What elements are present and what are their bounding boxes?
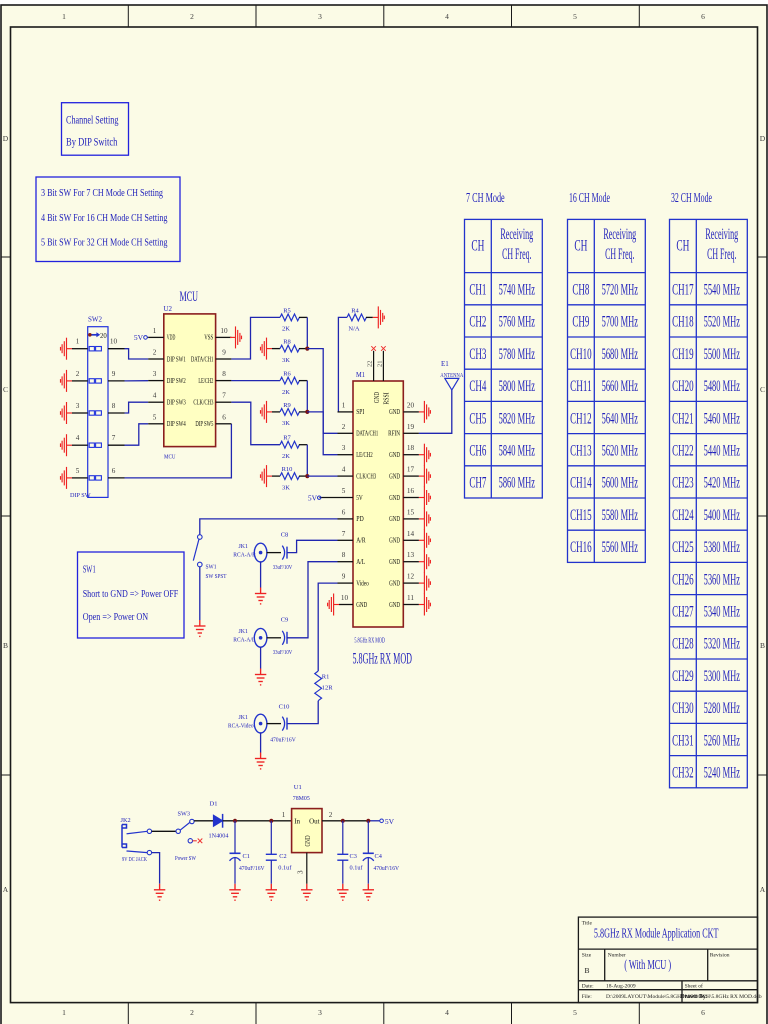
svg-text:6: 6 [222,413,226,421]
svg-text:5660 MHz: 5660 MHz [602,378,638,395]
svg-text:CH30: CH30 [672,700,694,717]
M1 left pin lines [320,412,354,605]
svg-text:1: 1 [76,338,80,346]
svg-text:17: 17 [407,466,415,474]
svg-text:5580 MHz: 5580 MHz [602,507,638,524]
RX module M1 [353,371,413,668]
svg-text:R4: R4 [351,307,359,314]
svg-text:13: 13 [407,551,415,559]
wire junction to M1.4 [307,475,337,477]
svg-text:Receiving: Receiving [500,226,533,243]
wire M1.19 to antenna [419,390,452,433]
svg-text:LE/CH2: LE/CH2 [356,451,373,459]
svg-text:CH27: CH27 [672,604,694,621]
svg-text:GND: GND [389,558,400,566]
svg-text:R6: R6 [283,371,291,378]
svg-text:C2: C2 [279,853,286,860]
svg-text:MCU: MCU [180,289,199,305]
svg-text:9: 9 [222,349,226,357]
U2 pin names [167,334,214,428]
gnd flag at R9 [261,401,273,423]
svg-text:5620 MHz: 5620 MHz [602,443,638,460]
svg-text:C9: C9 [281,617,289,624]
junction at C3 [341,819,345,823]
gnd flag M1.11 [419,594,431,616]
svg-text:Date:: Date: [582,984,594,990]
svg-text:SPI: SPI [356,408,365,416]
ground at C1 [229,884,240,900]
gnd flag M1.17 [419,465,431,487]
svg-text:9: 9 [342,573,346,581]
svg-text:5820 MHz: 5820 MHz [499,410,535,427]
svg-text:CH17: CH17 [672,282,694,299]
table: 16 CH Mode [568,191,646,562]
svg-text:CH2: CH2 [469,314,486,331]
svg-text:5: 5 [342,487,346,495]
no-connect X on pin 21 [381,346,386,351]
svg-text:CH28: CH28 [672,636,694,653]
svg-text:5860 MHz: 5860 MHz [499,475,535,492]
ground at JK2 [154,884,165,900]
svg-text:R5: R5 [283,307,291,314]
svg-text:SW3: SW3 [178,811,191,818]
svg-text:5440 MHz: 5440 MHz [704,443,740,460]
gnd flag SW2 pin5 [61,467,73,489]
svg-text:R9: R9 [283,402,291,409]
gnd flag M1.14 [419,529,431,551]
wire M1.Video to R1 [318,583,337,671]
svg-text:33uF/10V: 33uF/10V [273,564,293,571]
svg-text:5760 MHz: 5760 MHz [499,314,535,331]
gnd flag M1.16 [419,487,431,509]
SW2 right pins 10-6 [108,349,125,478]
svg-text:RCA-A/L: RCA-A/L [233,637,255,644]
svg-text:4: 4 [153,392,157,400]
svg-text:D: D [3,134,9,143]
junction R8/R5 [305,347,309,351]
svg-text:DIP SW: DIP SW [70,492,91,499]
svg-text:5V: 5V [308,493,318,502]
svg-text:CH Freq.: CH Freq. [605,246,634,263]
svg-text:CH21: CH21 [672,410,694,427]
wire SW2.10 to U2.2 [125,349,149,359]
svg-text:3: 3 [318,1008,322,1017]
svg-text:2K: 2K [282,389,290,396]
wire R5 to R8 junction [306,317,308,348]
svg-text:2: 2 [190,1008,194,1017]
svg-text:20: 20 [407,401,415,409]
svg-text:3: 3 [342,444,346,452]
no-connect X at SW3 unused throw [198,839,203,844]
svg-text:5640 MHz: 5640 MHz [602,410,638,427]
svg-text:Out: Out [309,817,320,825]
svg-text:C8: C8 [281,532,289,539]
wire M1.PD to SW1 [200,519,338,535]
switch SW3 [175,811,197,863]
gnd flag at U2.VSS [230,326,242,348]
svg-text:GND: GND [373,392,381,403]
svg-text:5 Bit SW For 32 CH Mode CH Set: 5 Bit SW For 32 CH Mode CH Setting [41,236,168,248]
junction R9/R6 [305,410,309,414]
svg-text:3K: 3K [282,420,290,427]
svg-text:CH4: CH4 [469,378,486,395]
junction at C1 [233,819,237,823]
gnd flag SW2 pin2 [61,370,73,392]
svg-text:RCA-Video: RCA-Video [228,723,254,730]
diode D1 1N4004 [209,801,230,840]
svg-text:5V: 5V [385,817,395,826]
svg-text:3K: 3K [282,357,290,364]
svg-text:12: 12 [407,573,415,581]
svg-text:16: 16 [407,487,415,495]
svg-text:1: 1 [282,811,286,819]
capacitor C2 [266,821,293,884]
svg-text:DIP SW5: DIP SW5 [195,420,213,428]
M1 pin names [356,408,400,609]
svg-text:21: 21 [376,361,383,368]
svg-text:GND: GND [389,601,400,609]
svg-text:14: 14 [407,530,415,538]
wire U2.7 to R7 [231,402,280,445]
gnd flag SW2 pin3 [61,402,73,424]
svg-text:3: 3 [297,870,305,874]
wire SW2.6 to U2.6 [125,424,232,478]
svg-text:6: 6 [701,12,705,21]
svg-text:In: In [294,817,300,825]
svg-text:5560 MHz: 5560 MHz [602,539,638,556]
svg-text:5460 MHz: 5460 MHz [704,410,740,427]
SW2 switch element 5 [89,476,101,480]
svg-text:CH23: CH23 [672,475,694,492]
wire R6 to R9 junction [306,381,308,412]
svg-text:7: 7 [342,530,346,538]
svg-text:5300 MHz: 5300 MHz [704,668,740,685]
wire D1 to U1.In [223,820,292,822]
capacitor C10 [270,704,296,744]
svg-text:1N4004: 1N4004 [209,833,230,840]
svg-text:RFIN: RFIN [388,430,400,438]
resistor R1 [315,671,333,701]
svg-text:5600 MHz: 5600 MHz [602,475,638,492]
gnd flag M1.13 [419,551,431,573]
svg-text:10: 10 [220,327,228,335]
svg-text:15: 15 [407,508,415,516]
svg-text:D: D [760,134,766,143]
capacitor C9 [273,617,293,657]
svg-text:R8: R8 [283,339,291,346]
svg-text:CH3: CH3 [469,346,486,363]
svg-text:A/R: A/R [356,537,366,545]
svg-text:6: 6 [342,508,346,516]
svg-text:SW1: SW1 [83,564,96,576]
connector JK1 RCA-A/L [233,628,281,668]
svg-text:5800 MHz: 5800 MHz [499,378,535,395]
capacitor C3 [337,821,363,884]
svg-text:CH22: CH22 [672,443,694,460]
svg-text:Receiving: Receiving [603,226,636,243]
table: 32 CH Mode [670,191,748,788]
no-connect X on pin 22 [371,346,376,351]
svg-text:A/L: A/L [356,558,365,566]
svg-text:470uF/16V: 470uF/16V [239,865,265,872]
svg-text:5680 MHz: 5680 MHz [602,346,638,363]
svg-text:7: 7 [112,434,116,442]
ground at JK1 A/R [255,588,266,604]
svg-text:33uF/10V: 33uF/10V [273,649,293,656]
wire R1 to C10 [287,701,318,724]
svg-text:8: 8 [222,370,226,378]
svg-text:CH31: CH31 [672,732,694,749]
svg-text:CLK/CH3: CLK/CH3 [193,399,213,407]
svg-text:5260 MHz: 5260 MHz [704,732,740,749]
switch SW1 SPST [193,535,226,580]
svg-text:5420 MHz: 5420 MHz [704,475,740,492]
svg-text:CH Freq.: CH Freq. [502,246,531,263]
svg-text:Power SW: Power SW [175,855,196,862]
svg-text:1: 1 [62,1008,66,1017]
wire SW3 to D1 [194,820,213,822]
svg-text:N/A: N/A [348,326,360,333]
junction at C4 [366,819,370,823]
svg-text:5: 5 [153,413,157,421]
svg-text:C: C [3,385,8,394]
gnd flag M1.10 [328,594,340,616]
power port 5V at M1.5 [308,493,321,502]
svg-text:5780 MHz: 5780 MHz [499,346,535,363]
svg-text:CH15: CH15 [570,507,592,524]
svg-text:5720 MHz: 5720 MHz [602,282,638,299]
svg-text:CH9: CH9 [572,314,589,331]
wire junction to M1.2 [307,349,337,434]
gnd flag at R4 [373,306,385,328]
top margin column dividers [128,5,639,27]
svg-text:M1: M1 [356,371,365,379]
svg-text:C3: C3 [350,853,357,860]
svg-text:5: 5 [573,1008,577,1017]
svg-text:SW SPST: SW SPST [206,573,227,580]
svg-text:18: 18 [407,444,415,452]
svg-text:12R: 12R [322,685,334,692]
svg-text:5V: 5V [134,333,144,342]
ground at JK1 A/L [255,669,266,685]
svg-text:5.8GHz RX Module Application C: 5.8GHz RX Module Application CKT [594,927,719,942]
svg-text:4: 4 [76,434,80,442]
svg-text:MCU: MCU [164,454,176,461]
svg-text:5400 MHz: 5400 MHz [704,507,740,524]
svg-text:RSSI: RSSI [383,392,391,405]
svg-text:5500 MHz: 5500 MHz [704,346,740,363]
svg-text:7 CH Mode: 7 CH Mode [466,191,505,206]
svg-text:DIP SW3: DIP SW3 [167,399,186,407]
side margin row dividers [1,257,767,775]
svg-text:5: 5 [573,12,577,21]
svg-text:Video: Video [356,579,369,587]
capacitor C1 [230,821,265,884]
svg-text:GND: GND [389,537,400,545]
wire JK2 tip to SW3 [152,830,176,832]
svg-text:18-Aug-2009: 18-Aug-2009 [606,984,636,990]
svg-text:Size: Size [582,953,592,959]
svg-text:5280 MHz: 5280 MHz [704,700,740,717]
svg-text:16 CH Mode: 16 CH Mode [569,191,610,206]
resistor R4 [338,307,372,412]
svg-text:CLK/CH3: CLK/CH3 [356,472,376,480]
svg-text:U2: U2 [164,305,173,313]
svg-text:CH: CH [574,238,587,255]
svg-text:GND: GND [389,451,400,459]
svg-text:RCA-A/R: RCA-A/R [233,552,256,559]
resistor R10 [272,466,307,491]
svg-text:5360 MHz: 5360 MHz [704,571,740,588]
svg-text:CH24: CH24 [672,507,694,524]
bottom margin column dividers [128,1003,639,1024]
svg-text:3K: 3K [282,484,290,491]
svg-text:LE/CH2: LE/CH2 [198,377,213,385]
wire SW2.8 to U2.4 [125,402,149,413]
svg-text:GND: GND [389,579,400,587]
U1 gnd pin wire [306,853,308,884]
svg-text:CH29: CH29 [672,668,694,685]
svg-text:VDD: VDD [167,334,176,342]
svg-text:9V DC JACK: 9V DC JACK [122,856,147,863]
svg-text:Open => Power ON: Open => Power ON [83,611,149,623]
svg-text:CH19: CH19 [672,346,694,363]
svg-text:DATA/CH1: DATA/CH1 [356,430,378,438]
svg-text:3: 3 [76,402,80,410]
connector JK1 RCA-Video [228,714,281,753]
capacitor C8 [273,532,293,572]
svg-text:78M05: 78M05 [293,795,310,802]
ground at U1 [301,884,312,900]
svg-text:2: 2 [76,370,80,378]
svg-text:CH18: CH18 [672,314,694,331]
wire U2.9 to R5 [231,317,280,359]
wire C8 to M1.A/R [287,540,338,552]
svg-text:3: 3 [153,370,157,378]
svg-text:A: A [760,885,766,894]
svg-text:GND: GND [356,601,367,609]
wire SW2.7 to U2.5 [125,424,149,445]
svg-text:4: 4 [445,12,449,21]
M1 top pin 22 GND [367,351,381,403]
wire R7 to R10 junction [306,445,308,476]
svg-text:0.1uf: 0.1uf [278,865,292,872]
DIP switch SW2 [70,316,108,499]
note: Channel Setting By DIP Switch [62,103,129,156]
svg-text:5540 MHz: 5540 MHz [704,282,740,299]
svg-text:8: 8 [342,551,346,559]
gnd flag SW2 pin1 [61,338,73,360]
wire SW1 to gnd [199,567,201,620]
svg-text:GND: GND [389,515,400,523]
table: 7 CH Mode [465,191,543,498]
svg-text:CH5: CH5 [469,410,486,427]
svg-text:2K: 2K [282,326,290,333]
svg-text:JK1: JK1 [239,714,249,721]
svg-text:5240 MHz: 5240 MHz [704,765,740,782]
svg-text:6: 6 [701,1008,705,1017]
svg-text:CH25: CH25 [672,539,694,556]
svg-text:5: 5 [76,467,80,475]
svg-text:C10: C10 [279,704,290,711]
svg-text:Short to GND => Power OFF: Short to GND => Power OFF [83,588,179,600]
svg-text:File:: File: [582,994,593,1000]
resistor R9 [272,402,307,427]
svg-text:5V: 5V [356,494,363,502]
svg-text:470uF/16V: 470uF/16V [270,737,296,744]
svg-text:JK1: JK1 [239,628,249,635]
svg-text:CH10: CH10 [570,346,592,363]
resistor R5 [280,307,307,332]
svg-text:5320 MHz: 5320 MHz [704,636,740,653]
svg-text:CH20: CH20 [672,378,694,395]
svg-text:5.8GHz RX MOD: 5.8GHz RX MOD [353,651,413,668]
svg-text:CH32: CH32 [672,765,694,782]
svg-text:SW2: SW2 [88,316,103,324]
svg-text:C1: C1 [243,853,250,860]
svg-text:Number: Number [608,953,626,959]
wire U1.Out to 5V port [322,820,368,822]
svg-text:DIP SW2: DIP SW2 [167,377,186,385]
svg-text:GND: GND [389,494,400,502]
svg-text:3 Bit SW For 7 CH Mode CH Sett: 3 Bit SW For 7 CH Mode CH Setting [41,187,163,199]
svg-text:CH: CH [471,238,484,255]
gnd flag M1.20 [419,401,431,423]
svg-text:2K: 2K [282,453,290,460]
regulator U1 78M05 [282,784,333,874]
M1 right pin lines [403,412,419,605]
wire C9 to M1.A/L [287,562,338,638]
svg-text:CH13: CH13 [570,443,592,460]
svg-text:CH6: CH6 [469,443,486,460]
svg-text:8: 8 [112,402,116,410]
svg-text:A: A [3,885,9,894]
svg-text:B: B [760,641,765,650]
svg-text:11: 11 [407,594,414,602]
svg-text:C4: C4 [375,853,383,860]
gnd flag M1.18 [419,444,431,466]
svg-text:5.8GHz RX MOD: 5.8GHz RX MOD [354,637,385,645]
svg-text:Sheet of: Sheet of [685,983,703,990]
svg-text:CH7: CH7 [469,475,486,492]
svg-text:5740 MHz: 5740 MHz [499,282,535,299]
wire U2.8 to R6 [231,380,280,382]
power port 5V output [380,817,395,826]
svg-text:CH14: CH14 [570,475,592,492]
svg-text:19: 19 [407,423,415,431]
svg-text:CH16: CH16 [570,539,592,556]
svg-text:Receiving: Receiving [705,226,738,243]
svg-text:2: 2 [329,811,333,819]
SW2 switch element 1 [89,347,101,351]
wire junction to M1.3 [307,412,337,455]
U2 left pin lines [148,337,164,423]
svg-text:GND: GND [389,472,400,480]
svg-text:4: 4 [342,466,346,474]
resistor R7 [280,435,307,460]
svg-text:U1: U1 [294,784,302,791]
svg-text:GND: GND [304,836,312,847]
svg-text:Revision: Revision [710,953,730,959]
SW2 switch element 2 [89,379,101,383]
svg-text:CH Freq.: CH Freq. [707,246,736,263]
U2 pin numbers [153,327,228,421]
junction at C2 [269,819,273,823]
ground at C2 [266,884,277,900]
svg-text:4 Bit SW For 16 CH Mode CH Set: 4 Bit SW For 16 CH Mode CH Setting [41,212,168,224]
svg-text:5520 MHz: 5520 MHz [704,314,740,331]
SW2 switch element 4 [89,443,101,447]
